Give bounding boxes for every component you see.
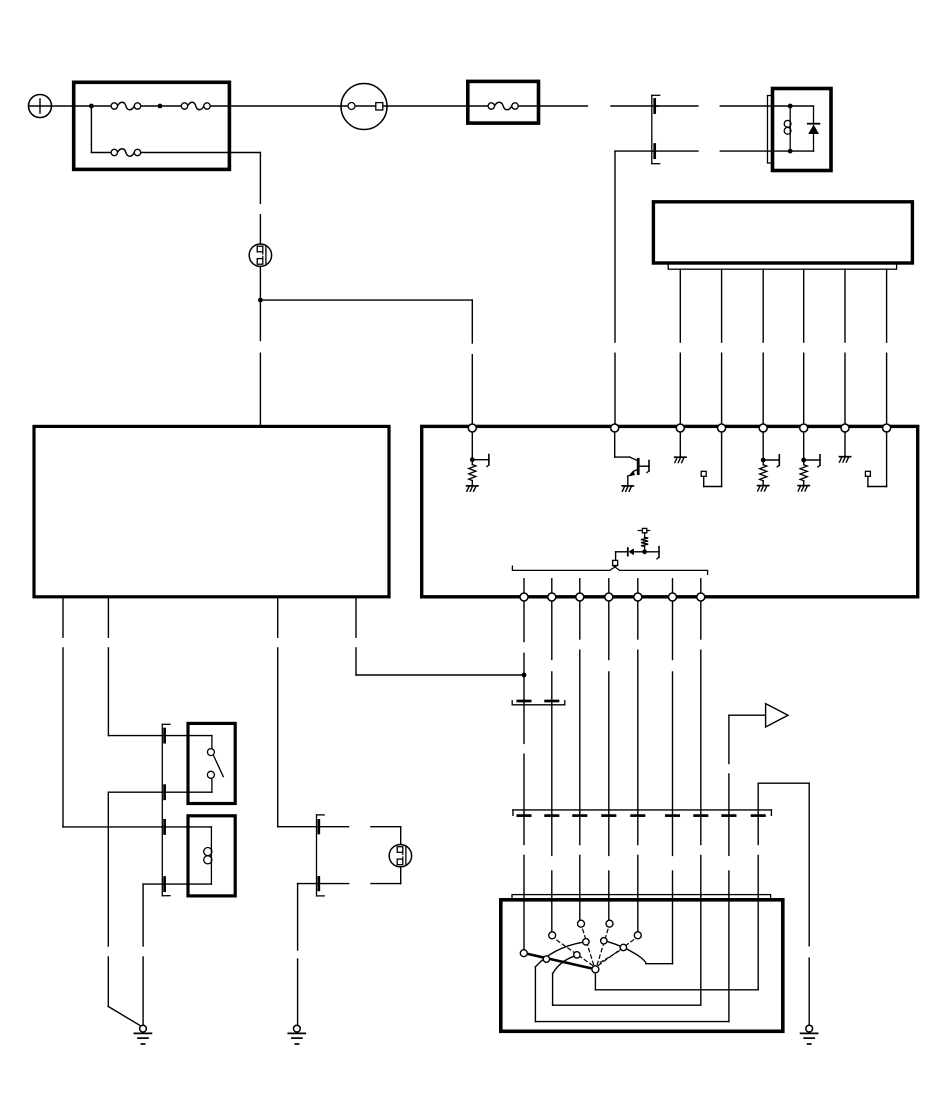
rotor contact b: [574, 952, 580, 958]
wire curve2 return: [553, 1004, 701, 1006]
ground middle earth: [288, 1025, 305, 1044]
wire bus stub 4: [608, 579, 610, 595]
ECU top terminal 7: [841, 424, 849, 432]
relay coil L1: [784, 106, 791, 151]
wire igniter pin 1 to ECU: [679, 269, 681, 423]
rotor position dashed 1: [555, 939, 593, 966]
resistor R1: [469, 460, 476, 486]
rotor pivot: [592, 966, 599, 973]
wire curve1 return: [535, 1021, 729, 1023]
wire control unit out4: [355, 598, 357, 675]
wire switch return: [108, 792, 212, 1025]
ground R2 chassis: [758, 486, 769, 491]
ECU box: [422, 426, 918, 596]
ground pin7 chassis: [839, 457, 850, 462]
wire battery to fusible link box: [52, 105, 112, 107]
solenoid valve box: [188, 816, 235, 896]
connector C2 bracket: [512, 701, 565, 705]
rotor position dashed 2: [582, 927, 594, 964]
wire relay diode branch: [790, 106, 813, 151]
ECU top terminal 8: [883, 424, 891, 432]
wire R3 tap: [804, 455, 820, 467]
main relay box: [773, 89, 832, 171]
node R3 top: [801, 458, 806, 463]
connector C5: [162, 724, 170, 895]
wire control unit out1: [63, 598, 211, 827]
connector C2 ticks: [518, 700, 558, 703]
wire ECU out7: [700, 601, 702, 1005]
distributor cap contact curve 2: [553, 956, 575, 1005]
fuse box F1: [468, 81, 539, 123]
harness connector C4: [512, 895, 771, 900]
wire control unit out2: [108, 598, 211, 735]
node A: [258, 298, 263, 303]
resistor R4: [641, 533, 648, 552]
node out1 junction: [522, 673, 527, 678]
node relay coil bottom: [788, 149, 793, 154]
wire noise filter to node A: [259, 266, 261, 300]
pin8 stub terminal: [865, 471, 870, 476]
fusible link FL2: [181, 102, 210, 110]
wire FL3 to noise filter: [141, 153, 261, 245]
distributor cap terminal 2: [549, 932, 556, 939]
rotor position dashed 4: [598, 938, 635, 965]
wire igniter pin 4 to ECU: [803, 269, 805, 423]
wire ECU pin1 to R1: [471, 432, 473, 460]
distributor cap terminal 5: [634, 932, 641, 939]
ECU bottom terminal 6: [669, 593, 677, 601]
rotor contact c: [583, 939, 589, 945]
wire ECU pin7 to ground: [844, 432, 846, 456]
wire node A to control unit: [259, 300, 261, 426]
distributor cap terminal 4: [606, 920, 613, 927]
ECU top terminal 4: [718, 424, 726, 432]
diode D1: [808, 124, 820, 134]
wire to ground right: [808, 783, 810, 1025]
wire igniter pin 5 to ECU: [844, 269, 846, 423]
wire igniter pin 2 to ECU: [721, 269, 723, 423]
wire bus stub 2: [551, 579, 553, 595]
distributor cap contact curve 1: [535, 942, 583, 1021]
ECU bottom terminal 2: [548, 593, 556, 601]
wire FL3 branch: [91, 106, 111, 153]
ground right earth: [801, 1025, 818, 1044]
wire tachometer line: [728, 715, 730, 1021]
resistor R2: [760, 460, 767, 485]
fusible link FL1: [111, 102, 141, 110]
wire distributor pivot return: [758, 783, 809, 990]
wire igniter pin 3 to ECU: [762, 269, 764, 423]
main relay connector edge: [768, 96, 773, 164]
ground pin3 chassis: [675, 457, 686, 462]
wire ECU out3: [579, 601, 581, 920]
node pull-up output: [642, 549, 647, 554]
wire ECU pin8 sensor stub: [868, 432, 887, 487]
wire solenoid return: [143, 884, 211, 1025]
wire fuse F1 to connector C1: [518, 105, 658, 107]
ignition switch SW1: [341, 84, 387, 130]
wire bus stub 3: [579, 579, 581, 595]
wire control unit out3: [278, 598, 401, 827]
connector C6: [317, 815, 325, 896]
ground R3 chassis: [798, 486, 809, 491]
wire ECU pin3 to ground: [679, 432, 681, 457]
noise filter capacitor CF1: [249, 244, 271, 266]
wire ECU out5: [637, 601, 639, 932]
rotor contact d: [601, 938, 607, 944]
wire C1 pin1 to main relay: [655, 105, 791, 107]
control unit box: [34, 426, 389, 596]
wire control unit to node out1: [356, 674, 524, 676]
pressure switch box: [188, 723, 235, 803]
rotor contact e: [620, 944, 626, 950]
distributor cap terminal 1: [520, 950, 527, 957]
node R1 top: [470, 457, 475, 462]
wire ECU out1 to distributor: [523, 601, 525, 950]
ground Q1 emitter chassis: [622, 486, 633, 491]
ECU bottom terminal 4: [605, 593, 613, 601]
rotor contact a: [543, 956, 549, 962]
rotor position dashed 3: [597, 927, 608, 964]
distributor cap terminal 3: [578, 920, 585, 927]
rotor position dashed 5: [600, 951, 619, 963]
pressure switch contacts: [207, 736, 223, 793]
solenoid coil L2: [204, 827, 212, 884]
igniter power unit box: [653, 202, 912, 263]
wire diode to bus: [616, 552, 628, 561]
distributor cap contact curve 3: [607, 941, 673, 963]
wire ECU out6: [672, 601, 674, 964]
wire R2 tap: [763, 455, 779, 467]
wire pull-up tap right: [645, 547, 659, 559]
diode D2: [628, 548, 645, 556]
wire ECU pin5 to R2: [762, 432, 764, 460]
ECU bottom terminal 1: [520, 593, 528, 601]
wire bus stub 1: [523, 579, 525, 595]
ECU top terminal 6: [800, 424, 808, 432]
wire ECU pin2 to Q1 base: [615, 432, 637, 460]
wire C1 pin2 to main relay: [655, 150, 791, 152]
wire ECU out2 to distributor: [551, 601, 553, 932]
wire rotor to pivot return: [595, 973, 758, 990]
tachometer output arrow: [729, 704, 788, 727]
wire bus stub 7: [700, 579, 702, 595]
connector C1: [652, 95, 660, 163]
wire bus stub 5: [637, 579, 639, 595]
wire igniter pin 6 to ECU: [886, 269, 888, 423]
bus gathering bracket: [512, 565, 707, 574]
wire FL2 to ignition switch: [210, 105, 488, 107]
transistor Q1: [628, 459, 649, 485]
harness connector C3: [513, 810, 771, 816]
bus gathering terminal: [613, 560, 618, 565]
wire R1 tap: [472, 455, 489, 467]
node R2 top: [761, 458, 766, 463]
ballast resistor unit: [389, 845, 411, 867]
node relay coil top: [788, 104, 793, 109]
wire FL1 to FL2: [141, 105, 182, 107]
resistor R3: [800, 460, 807, 485]
ECU top terminal 3: [676, 424, 684, 432]
pin4 stub terminal: [701, 471, 706, 476]
wire resistor unit return: [298, 867, 401, 1025]
wire C1 pin2 to ECU terminal: [615, 151, 655, 424]
battery positive terminal: [29, 95, 52, 118]
distributor box: [501, 900, 783, 1032]
pull-up supply pin: [638, 528, 650, 532]
wire ECU pin4 sensor stub: [704, 432, 722, 487]
distributor rotor blade: [526, 953, 595, 969]
ECU top terminal 1: [468, 424, 476, 432]
ground left earth: [134, 1025, 151, 1044]
ECU bottom terminal 3: [576, 593, 584, 601]
wire node A to ECU left terminal: [260, 300, 472, 424]
ECU bottom terminal 5: [634, 593, 642, 601]
igniter connector strip: [668, 263, 896, 269]
wire ECU pin6 to R3: [803, 432, 805, 460]
wire bus stub 6: [672, 579, 674, 595]
ECU top terminal 2: [611, 424, 619, 432]
fusible link box: [74, 82, 230, 169]
ground R1 chassis: [467, 486, 478, 491]
wire C6 to resistor unit: [400, 827, 402, 845]
fuse F1: [488, 102, 518, 110]
node between fusible links: [158, 104, 163, 109]
wire ECU out4: [608, 601, 610, 920]
fusible link FL3: [111, 149, 141, 157]
ECU bottom terminal 7: [697, 593, 705, 601]
ECU top terminal 5: [759, 424, 767, 432]
node battery feed junction: [89, 104, 94, 109]
